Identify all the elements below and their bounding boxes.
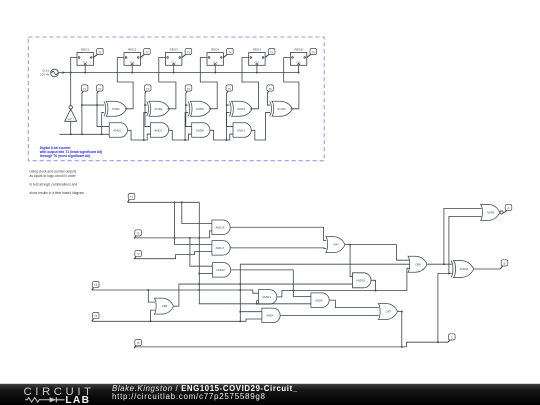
svg-text:AND17: AND17 (216, 246, 225, 250)
svg-text:REG1: REG1 (81, 48, 90, 52)
junction OR8 out tap (443, 263, 445, 265)
junction clock node 3 (173, 72, 175, 74)
net flag T4 logic row (185, 85, 192, 94)
and gate AND19 (212, 220, 230, 235)
wire AND3 output carry (251, 113, 270, 140)
footer bar (0, 384, 540, 405)
svg-text:AND4: AND4 (266, 313, 274, 317)
xor gate XOR11 (451, 261, 474, 278)
svg-text:AND8: AND8 (196, 128, 204, 132)
wire OR4 out to OR8.A (350, 245, 410, 261)
svg-text:AND1: AND1 (113, 128, 121, 132)
or gate OR4 (326, 237, 345, 253)
svg-text:AND3: AND3 (237, 128, 245, 132)
junction T5 V6 (239, 320, 241, 322)
wire XOR1 upper input line (82, 104, 104, 106)
and gate AND2 (150, 123, 168, 138)
wire V6 stub AND4.A (240, 311, 262, 313)
and gate AND1 (109, 123, 127, 138)
svg-text:XOR1: XOR1 (112, 107, 121, 111)
wire T1 feedback bottom line (60, 133, 110, 135)
D flip-flop REG5 (290, 48, 306, 66)
annotation blue counter description (39, 146, 102, 158)
wire AND8 out to OR7.A (329, 300, 379, 307)
D flip-flop REG6 (207, 48, 223, 66)
junction bottom line NOT1 (70, 133, 72, 135)
TOPBLOCK (28, 37, 324, 161)
wire T3 line (134, 252, 212, 259)
svg-text:through T6 (most significant b: through T6 (most significant bit) (40, 154, 91, 158)
wire T5 vertical (227, 93, 233, 126)
counter enclosure dashed box (28, 37, 324, 161)
svg-text:A: A (508, 206, 510, 210)
net flag T4 (92, 282, 99, 291)
svg-text:show results in a time based d: show results in a time based diagram. (30, 191, 85, 195)
annotation black description (30, 169, 85, 195)
svg-text:REG3: REG3 (170, 48, 179, 52)
wire T3 vertical (145, 93, 150, 126)
and gate AND8 (192, 123, 210, 138)
junction clock node 5 (256, 72, 258, 74)
svg-text:to test all logic combinations: to test all logic combinations and (30, 183, 78, 187)
wire CLK stub REG3 (173, 65, 175, 72)
D flip-flop REG1 (77, 48, 93, 66)
junction carry riser 3 (225, 139, 227, 141)
wire AND4 out to OR7.B (280, 314, 379, 316)
wire riser to XOR1 lower input (102, 113, 105, 135)
svg-text:100 Hz: 100 Hz (40, 73, 50, 77)
junction T5 at XOR input (226, 104, 228, 106)
wire AND8 output carry (210, 130, 233, 140)
wire T5 rise to OR6.B (151, 310, 155, 321)
svg-text:OR7: OR7 (386, 310, 392, 314)
net flag T1 (128, 194, 135, 203)
junction V5 AND18.B tap (198, 273, 200, 275)
FOOTER (0, 384, 540, 405)
xor gate XOR2 (147, 101, 170, 116)
wire XOR2 output to REG3 D (159, 58, 176, 109)
svg-text:AND21: AND21 (262, 295, 271, 299)
net flag T2 output of REG2 (140, 48, 150, 57)
wire riser NOR9.A (444, 208, 482, 264)
svg-text:as inputs to logic circuit in: as inputs to logic circuit in order (30, 174, 77, 178)
junction V7 on L14 (256, 303, 258, 305)
svg-text:XOR11: XOR11 (460, 267, 469, 271)
wire AND21 out L12 (277, 268, 410, 297)
wire CLK stub REG1 (84, 65, 86, 72)
svg-text:B: B (504, 262, 506, 266)
wire OR4 out to AND20.A (350, 245, 352, 277)
junction bottom line T1 (81, 133, 83, 135)
junction AND16 branch on L12 (292, 290, 294, 292)
wire OR4 out (345, 244, 350, 246)
svg-text:XOR2: XOR2 (154, 107, 163, 111)
net flag T5 output of REG4 (265, 48, 275, 57)
junction T2 line V3 (189, 237, 191, 239)
wire AND19 out to OR4.A (230, 227, 326, 240)
svg-text:XOR6: XOR6 (196, 107, 205, 111)
logo resistor symbol (25, 398, 50, 403)
nor gate NOR9 (481, 204, 503, 220)
or gate OR7 (378, 304, 397, 320)
svg-text:AND16: AND16 (216, 268, 225, 272)
net flag T3 logic row (144, 85, 151, 94)
junction C riser (437, 341, 439, 343)
junction clock node 2 (131, 72, 133, 74)
svg-text:REG8: REG8 (295, 48, 304, 52)
net flag T1 logic row (81, 85, 88, 94)
svg-text:OR4: OR4 (333, 243, 339, 247)
TEXTS (30, 146, 103, 195)
wire riser to XOR11.B (438, 273, 452, 342)
logo diode symbol (50, 397, 57, 402)
and gate AND8 (311, 293, 329, 308)
net flag T2 logic row (96, 85, 103, 94)
svg-text:REG2: REG2 (128, 48, 137, 52)
and gate AND16 (212, 263, 230, 278)
net flag T3 output of REG3 (182, 48, 192, 57)
svg-text:AND20: AND20 (356, 278, 365, 282)
wire T5 line (92, 319, 262, 321)
wire CLK stub REG5 (298, 65, 300, 72)
net flag B (501, 260, 508, 269)
wire NOR9 out to flag A (503, 211, 505, 213)
svg-text:LAB: LAB (65, 395, 90, 405)
wire T6 vertical (267, 93, 270, 105)
wire AND16 out branch (231, 270, 311, 297)
net flag T1 output of REG1 (93, 48, 103, 57)
D flip-flop REG2 (124, 48, 140, 66)
xor gate XOR1 (104, 101, 127, 116)
junction T3 at XOR input (144, 104, 146, 106)
junction carry riser 1 (143, 139, 145, 141)
junction T5 OR6 tap (150, 320, 152, 322)
and gate AND4 (262, 308, 280, 323)
wire clock line (58, 72, 298, 74)
wire V5 T1 right bus (199, 202, 311, 303)
and gate AND20 (353, 273, 372, 288)
junction OR7/T6 join (401, 346, 403, 348)
net flag T5 logic row (226, 85, 233, 94)
junction T1 line V2 (181, 201, 183, 203)
net flag C (448, 334, 455, 342)
junction carry riser 2 (184, 139, 186, 141)
wire V3 T2 to AND18.A (190, 238, 213, 266)
wire CLK stub REG6 (214, 65, 216, 72)
net flag T3 (134, 251, 141, 260)
svg-text:http://circuitlab.com/c77p2575: http://circuitlab.com/c77p2575589g8 (112, 392, 266, 401)
wire V2 T1 to AND19.A (182, 202, 212, 223)
and gate AND17 (212, 241, 230, 256)
svg-text:OR8: OR8 (415, 262, 421, 266)
net flag T6 logic row (267, 85, 274, 94)
wire node C run (402, 342, 448, 347)
D flip-flop REG4 (249, 48, 265, 66)
wire OR7 out down (397, 312, 401, 347)
and gate AND21 (259, 290, 277, 305)
junction on clock line at x70.7 (70, 72, 72, 74)
wire AND1 output carry (127, 130, 150, 140)
wire OR8 out to XOR11.A (427, 263, 452, 265)
net flag T5 (92, 313, 99, 322)
junction AND20 out on L12 (375, 290, 377, 292)
wire AND17 out to OR4.B (230, 247, 326, 250)
wire T6 line (134, 346, 402, 348)
svg-text:REG6: REG6 (211, 48, 220, 52)
wire T2 line (134, 231, 212, 238)
wire T1 line (128, 201, 200, 203)
wire riser NOR9.B (449, 216, 482, 273)
wire XOR11 out to flag B (474, 268, 501, 270)
svg-text:AND8: AND8 (315, 298, 323, 302)
or gate OR8 (408, 256, 427, 272)
junction T1 line V1 (174, 201, 176, 203)
svg-text:C: C (451, 336, 453, 340)
D flip-flop REG3 (166, 48, 182, 66)
wire V1 T1 to AND17.A (175, 202, 212, 244)
net flag T4 output of REG6 (223, 48, 233, 57)
svg-text:XOR4: XOR4 (277, 107, 286, 111)
xor gate XOR3 (229, 101, 252, 116)
wire V5 stub AND18.B (199, 273, 212, 275)
svg-text:OR6: OR6 (162, 304, 168, 308)
junction clock node 1 (84, 72, 86, 74)
net flag T6 output of REG5 (307, 48, 317, 57)
net flag T6 (134, 340, 141, 349)
wire XOR1 output to REG2 D (117, 58, 133, 109)
junction clock node 4 (214, 72, 216, 74)
voltage source CLK1 (40, 69, 58, 77)
svg-text:AND2: AND2 (154, 128, 162, 132)
wire T4 line (92, 290, 259, 293)
or gate OR6 (154, 298, 173, 314)
wire AND20 out (371, 280, 375, 290)
junction OR7 out (401, 311, 403, 313)
wire T1 vertical (81, 93, 83, 134)
junction T4 at XOR input (185, 104, 187, 106)
svg-text:AND19: AND19 (216, 225, 225, 229)
junction T2 vertical on XOR1 input (96, 104, 98, 106)
LOWERBLOCK (92, 194, 512, 349)
wire AND2 output carry (169, 130, 192, 140)
junction V6 AND4.A tap (239, 311, 241, 313)
junction C net tap (448, 272, 450, 274)
wire CLK stub REG2 (131, 65, 133, 72)
wire XOR6 output to REG6 D (200, 58, 217, 109)
wire CLK stub REG4 (256, 65, 258, 72)
wire XOR4 output to REG5 D (284, 58, 299, 109)
junction bottom line XOR1 riser (101, 133, 103, 135)
junction OR4 out node (349, 244, 351, 246)
wire NOT1 output to REG1 D (71, 58, 77, 106)
wire XOR3 output to REG4 D (242, 58, 259, 109)
svg-text:XOR3: XOR3 (237, 107, 246, 111)
clock arrowhead (63, 71, 66, 74)
and gate AND3 (233, 123, 251, 138)
net flag A (505, 204, 512, 212)
svg-text:REG4: REG4 (253, 48, 262, 52)
wire NOT1 input stub (70, 121, 72, 134)
net flag T2 (134, 230, 141, 239)
wire T2 vertical (97, 93, 109, 126)
svg-text:NOR9: NOR9 (487, 211, 495, 215)
wire T4 vertical (186, 93, 192, 126)
xor gate XOR6 (188, 101, 211, 116)
wire V6 T5 riser (240, 264, 410, 321)
junction clock node 6 (298, 72, 300, 74)
inverter NOT1 (65, 106, 77, 122)
wire V7 AND21 inputs (257, 301, 259, 304)
junction T1 vertical on XOR1 input (81, 104, 83, 106)
wire OR6 out L11 to AND20.B (173, 284, 352, 306)
svg-text:Using clock and counter output: Using clock and counter outputs (30, 169, 77, 173)
xor gate XOR4 (270, 101, 293, 116)
